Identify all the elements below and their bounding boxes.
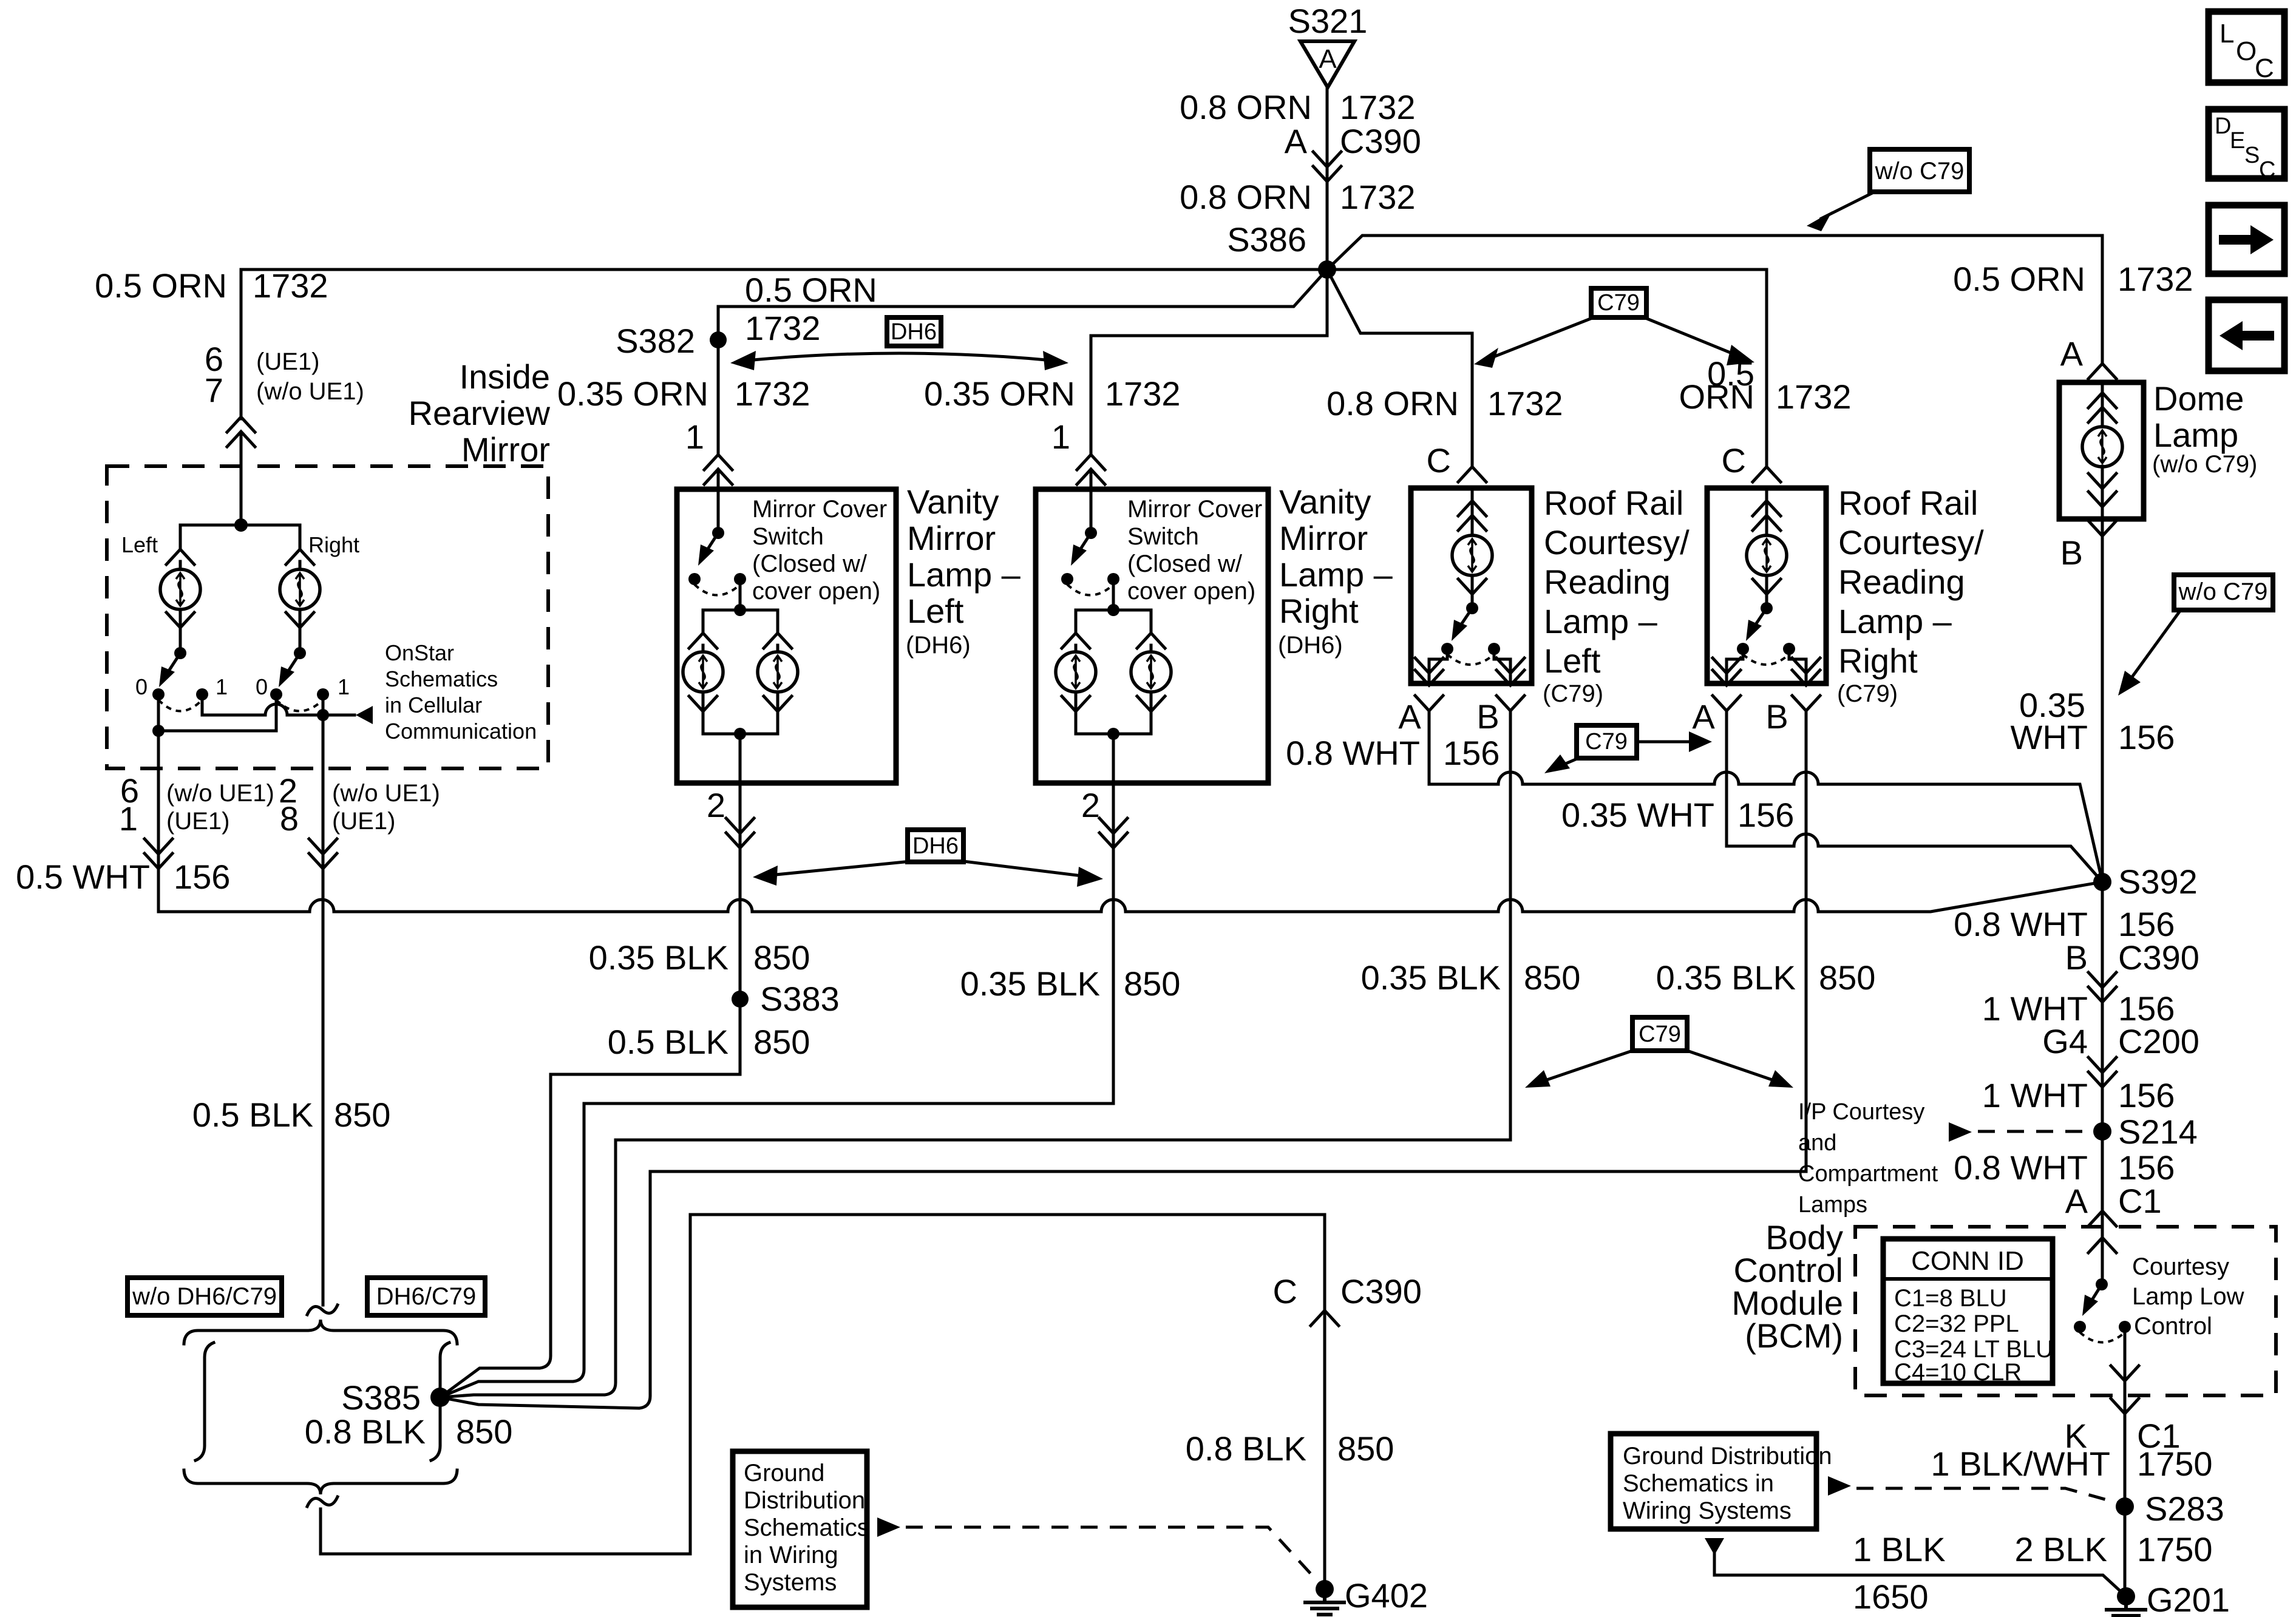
svg-text:8: 8 bbox=[280, 799, 299, 838]
connector C390 pin A bbox=[1313, 152, 1341, 181]
svg-text:Mirror: Mirror bbox=[1279, 519, 1368, 557]
svg-text:A: A bbox=[1398, 697, 1421, 736]
svg-text:Mirror Cover: Mirror Cover bbox=[752, 496, 887, 523]
svg-text:Schematics: Schematics bbox=[744, 1514, 869, 1541]
wire 0.35 WHT 156 roof right A to S392 bbox=[1727, 711, 2102, 882]
svg-text:A: A bbox=[1285, 122, 1308, 160]
svg-text:(w/o C79): (w/o C79) bbox=[2152, 451, 2257, 478]
svg-text:1732: 1732 bbox=[745, 309, 821, 347]
svg-text:Roof Rail: Roof Rail bbox=[1838, 484, 1978, 522]
connector DH6 label lower bbox=[753, 830, 1103, 887]
svg-text:Mirror: Mirror bbox=[907, 519, 996, 557]
svg-text:Lamp –: Lamp – bbox=[1279, 555, 1393, 594]
svg-text:DH6: DH6 bbox=[891, 319, 937, 345]
svg-text:Roof Rail: Roof Rail bbox=[1544, 484, 1683, 522]
svg-text:Switch: Switch bbox=[1127, 523, 1199, 550]
svg-text:S: S bbox=[2244, 143, 2260, 168]
lamp mirror right bbox=[280, 549, 320, 653]
option break lower bbox=[307, 1497, 338, 1507]
splice S383 bbox=[589, 938, 840, 1061]
wire 0.35 BLK 850 roof right B to S385 bbox=[440, 711, 1875, 1408]
svg-text:G4: G4 bbox=[2042, 1022, 2088, 1060]
label roof rail courtesy reading lamp left bbox=[1543, 484, 1690, 707]
junction mirror feed node bbox=[180, 518, 300, 549]
svg-text:(DH6): (DH6) bbox=[906, 632, 971, 659]
svg-text:C390: C390 bbox=[2118, 938, 2199, 977]
wire vanity left pin 2 output bbox=[707, 734, 754, 999]
svg-text:1732: 1732 bbox=[2118, 260, 2193, 298]
svg-text:(BCM): (BCM) bbox=[1745, 1317, 1843, 1355]
legend back arrow button bbox=[2209, 300, 2284, 371]
svg-text:850: 850 bbox=[753, 1023, 810, 1061]
svg-text:0.8 WHT: 0.8 WHT bbox=[1286, 734, 1420, 772]
svg-text:(UE1): (UE1) bbox=[256, 348, 319, 375]
module body control module dashed box bbox=[1855, 1227, 2276, 1395]
wire 0.35 ORN 1732 S382 to vanity left pin 1 bbox=[557, 340, 810, 533]
svg-text:C390: C390 bbox=[1340, 122, 1421, 160]
svg-text:Left: Left bbox=[121, 532, 158, 557]
svg-text:and: and bbox=[1798, 1130, 1836, 1156]
svg-text:C: C bbox=[2259, 157, 2275, 183]
flag w/o C79 right bbox=[2118, 575, 2273, 696]
legend DESC button bbox=[2209, 109, 2284, 183]
svg-text:(UE1): (UE1) bbox=[332, 808, 395, 835]
svg-text:C4=10 CLR: C4=10 CLR bbox=[1894, 1359, 2022, 1386]
svg-text:0.5 BLK: 0.5 BLK bbox=[608, 1023, 729, 1061]
svg-text:Systems: Systems bbox=[744, 1569, 837, 1596]
connector C79 label top bbox=[1474, 288, 1754, 368]
svg-text:1: 1 bbox=[338, 674, 350, 699]
svg-text:A: A bbox=[1319, 44, 1337, 74]
component roof rail lamp right box bbox=[1707, 488, 1826, 683]
svg-text:2: 2 bbox=[707, 786, 725, 824]
svg-text:1732: 1732 bbox=[1340, 88, 1416, 126]
wire mirror to OnStar bbox=[202, 694, 373, 724]
wire mirror pin 6/1 output bbox=[119, 731, 274, 912]
switch mirror left bbox=[135, 647, 228, 711]
svg-text:C200: C200 bbox=[2118, 1022, 2199, 1060]
wire 0.8 WHT 156 roof left A to S392 bbox=[1429, 711, 2102, 882]
svg-text:2: 2 bbox=[1081, 786, 1100, 824]
label roof rail courtesy reading lamp right bbox=[1837, 484, 1984, 707]
svg-text:(w/o UE1): (w/o UE1) bbox=[166, 780, 274, 807]
connector roof right pin C bbox=[1722, 441, 1781, 482]
wire mirror pin 2/8 output bbox=[192, 715, 440, 1305]
svg-text:850: 850 bbox=[334, 1096, 390, 1134]
svg-text:0: 0 bbox=[256, 674, 268, 699]
svg-text:0: 0 bbox=[135, 674, 148, 699]
svg-text:S386: S386 bbox=[1227, 220, 1306, 259]
svg-text:CONN ID: CONN ID bbox=[1911, 1246, 2024, 1276]
svg-text:L: L bbox=[2220, 19, 2234, 49]
splice S386 bbox=[1227, 220, 1336, 279]
svg-text:Ground: Ground bbox=[744, 1460, 824, 1486]
svg-text:0.5 ORN: 0.5 ORN bbox=[1953, 260, 2085, 298]
option wire w/o DH6/C79 bbox=[195, 1343, 214, 1460]
svg-text:156: 156 bbox=[2118, 1076, 2175, 1114]
component inside rearview mirror dashed box bbox=[107, 466, 548, 768]
svg-text:Schematics: Schematics bbox=[385, 666, 498, 691]
svg-text:(C79): (C79) bbox=[1837, 680, 1898, 707]
svg-text:0.8 BLK: 0.8 BLK bbox=[1186, 1429, 1306, 1468]
flag DH6/C79 bbox=[367, 1278, 485, 1315]
wire BCM K C1 output bbox=[1931, 1327, 2212, 1507]
svg-text:1: 1 bbox=[119, 799, 138, 838]
svg-text:Lamp Low: Lamp Low bbox=[2132, 1283, 2244, 1310]
svg-text:Mirror: Mirror bbox=[461, 430, 550, 469]
svg-text:Courtesy/: Courtesy/ bbox=[1544, 523, 1690, 561]
svg-text:Vanity: Vanity bbox=[907, 483, 999, 521]
svg-text:1: 1 bbox=[685, 418, 704, 456]
label I/P courtesy callout bbox=[1798, 1099, 2091, 1218]
wire 0.8 ORN 1732 S321 to C390 bbox=[1180, 87, 1421, 267]
svg-text:0.35 WHT: 0.35 WHT bbox=[1561, 796, 1714, 834]
svg-text:850: 850 bbox=[456, 1412, 512, 1451]
lamp vanity right pair bbox=[1056, 579, 1171, 740]
svg-text:C: C bbox=[2255, 53, 2274, 83]
svg-text:w/o C79: w/o C79 bbox=[1875, 158, 1965, 185]
label mirror cover switch left bbox=[752, 496, 887, 605]
svg-text:C2=32 PPL: C2=32 PPL bbox=[1894, 1310, 2019, 1337]
svg-text:850: 850 bbox=[1819, 958, 1875, 997]
option break upper bbox=[307, 1305, 338, 1315]
switch mirror cover left bbox=[688, 527, 746, 595]
svg-text:B: B bbox=[2065, 938, 2088, 977]
svg-text:Rearview: Rearview bbox=[409, 394, 551, 432]
wire 1 WHT 156 C390 to C200 bbox=[1982, 989, 2199, 1087]
table CONN ID bbox=[1883, 1239, 2053, 1386]
svg-text:C: C bbox=[1273, 1272, 1297, 1310]
svg-text:S382: S382 bbox=[616, 322, 695, 360]
svg-text:850: 850 bbox=[1124, 964, 1180, 1003]
svg-text:1: 1 bbox=[216, 674, 228, 699]
wire 0.5 WHT 156 mirror to S392 bbox=[16, 858, 2102, 912]
svg-text:156: 156 bbox=[2118, 718, 2175, 756]
svg-text:Reading: Reading bbox=[1544, 563, 1671, 601]
svg-text:G201: G201 bbox=[2147, 1581, 2230, 1617]
component roof rail lamp left box bbox=[1411, 488, 1532, 683]
connector mirror pins 6/7 bbox=[227, 417, 255, 525]
svg-text:0.35 BLK: 0.35 BLK bbox=[589, 938, 729, 977]
svg-text:C: C bbox=[1722, 441, 1746, 480]
svg-text:1750: 1750 bbox=[2137, 1445, 2213, 1483]
svg-text:S214: S214 bbox=[2118, 1113, 2198, 1151]
legend LOC button bbox=[2209, 12, 2284, 83]
svg-text:1650: 1650 bbox=[1853, 1578, 1929, 1616]
svg-text:Left: Left bbox=[907, 592, 964, 630]
svg-text:Control: Control bbox=[2134, 1313, 2212, 1340]
wire 1 BLK 1650 to G201 bbox=[1705, 1530, 2126, 1616]
svg-text:Lamp –: Lamp – bbox=[907, 555, 1021, 594]
svg-text:C390: C390 bbox=[1340, 1272, 1422, 1310]
component vanity mirror lamp left box bbox=[677, 489, 896, 783]
svg-text:0.35 BLK: 0.35 BLK bbox=[960, 964, 1100, 1003]
wire 0.35 WHT 156 dome B to S392 bbox=[2010, 519, 2175, 882]
wire 0.8 WHT 156 S214 to BCM A C1 bbox=[1954, 1131, 2175, 1284]
svg-text:156: 156 bbox=[2118, 1148, 2175, 1187]
svg-text:D: D bbox=[2215, 114, 2231, 139]
connector dome pin A bbox=[2088, 364, 2116, 379]
svg-text:C79: C79 bbox=[1585, 729, 1628, 754]
wire 0.5 ORN 1732 S386 to inside rearview mirror bbox=[95, 266, 1327, 419]
svg-text:Vanity: Vanity bbox=[1279, 483, 1371, 521]
svg-text:1732: 1732 bbox=[735, 375, 810, 413]
label ground distribution callout right bbox=[1611, 1434, 2120, 1529]
svg-text:Courtesy: Courtesy bbox=[2132, 1253, 2229, 1280]
svg-text:1732: 1732 bbox=[1487, 384, 1563, 422]
svg-text:C: C bbox=[1427, 441, 1451, 480]
option wire DH6/C79 bbox=[431, 1343, 449, 1460]
svg-text:cover open): cover open) bbox=[1127, 578, 1255, 605]
option merge brace bottom bbox=[184, 1470, 457, 1494]
svg-text:A: A bbox=[2065, 1182, 2088, 1220]
component vanity mirror lamp right box bbox=[1036, 489, 1268, 783]
svg-text:Wiring Systems: Wiring Systems bbox=[1623, 1497, 1792, 1524]
ground G402 bbox=[1305, 1576, 1428, 1615]
wire mirror switch commons joined bbox=[152, 694, 276, 737]
svg-text:S321: S321 bbox=[1288, 2, 1368, 40]
svg-text:(w/o UE1): (w/o UE1) bbox=[256, 378, 364, 405]
label dome lamp bbox=[2152, 379, 2257, 478]
svg-text:1732: 1732 bbox=[1776, 378, 1852, 416]
wire 0.8 BLK 850 option merge to G402 bbox=[321, 1215, 1422, 1589]
switch courtesy lamp low control bbox=[2074, 1253, 2244, 1343]
svg-text:O: O bbox=[2236, 36, 2257, 66]
splice S385 bbox=[305, 1378, 513, 1451]
connector C79 label lower bbox=[1525, 1017, 1793, 1088]
switch mirror cover right bbox=[1061, 527, 1119, 595]
switch roof left bbox=[1415, 602, 1524, 685]
wire 0.8 ORN 1732 S386 to roof rail lamp left bbox=[1326, 269, 1563, 467]
svg-text:in Wiring: in Wiring bbox=[744, 1542, 838, 1568]
svg-text:Lamp –: Lamp – bbox=[1838, 602, 1952, 640]
svg-text:Courtesy/: Courtesy/ bbox=[1838, 523, 1984, 561]
svg-text:in Cellular: in Cellular bbox=[385, 693, 482, 717]
svg-text:(Closed w/: (Closed w/ bbox=[1127, 551, 1243, 577]
connector roof left pins A B bbox=[1286, 696, 1524, 772]
switch mirror right bbox=[256, 647, 350, 711]
svg-text:0.35 ORN: 0.35 ORN bbox=[924, 375, 1075, 413]
svg-text:WHT: WHT bbox=[2010, 718, 2088, 756]
lamp roof left bbox=[1452, 489, 1492, 608]
svg-text:E: E bbox=[2230, 128, 2245, 154]
label body control module bbox=[1731, 1218, 1843, 1355]
lamp roof right bbox=[1747, 489, 1787, 608]
wire 1 WHT 156 C200 to S214 bbox=[1982, 1076, 2175, 1131]
flag w/o C79 top bbox=[1807, 149, 1969, 231]
svg-text:Lamp: Lamp bbox=[2153, 416, 2238, 454]
svg-text:C79: C79 bbox=[1639, 1022, 1681, 1047]
legend forward arrow button bbox=[2209, 205, 2284, 274]
svg-text:G402: G402 bbox=[1345, 1576, 1428, 1615]
svg-text:Inside: Inside bbox=[460, 358, 550, 396]
svg-text:0.5 BLK: 0.5 BLK bbox=[192, 1096, 313, 1134]
wire 0.5 BLK 850 S383 to S385 bbox=[440, 999, 740, 1397]
svg-text:Right: Right bbox=[1279, 592, 1359, 630]
svg-text:B: B bbox=[1476, 697, 1499, 736]
svg-text:S385: S385 bbox=[341, 1378, 421, 1417]
wire 0.5 ORN 1732 S386 to S382 bbox=[718, 269, 1327, 347]
connector C79 label mid bbox=[1544, 725, 1712, 773]
svg-text:Right: Right bbox=[1838, 642, 1918, 680]
wire 0.5 ORN 1732 S386 to vanity mirror right bbox=[1091, 269, 1327, 453]
lamp vanity left pair bbox=[683, 579, 798, 740]
svg-text:0.5 ORN: 0.5 ORN bbox=[745, 271, 877, 309]
svg-text:1 BLK: 1 BLK bbox=[1853, 1530, 1946, 1568]
svg-text:S383: S383 bbox=[760, 980, 840, 1018]
svg-text:850: 850 bbox=[1524, 958, 1580, 997]
wire 0.8 WHT 156 S392 to C390 B bbox=[1954, 882, 2199, 1002]
splice S214 bbox=[2093, 1113, 2198, 1151]
label inside rearview mirror bbox=[409, 358, 551, 469]
svg-text:1732: 1732 bbox=[1105, 375, 1181, 413]
switch roof right bbox=[1713, 602, 1820, 685]
svg-text:(Closed w/: (Closed w/ bbox=[752, 551, 868, 577]
svg-text:Communication: Communication bbox=[385, 719, 537, 744]
svg-text:Schematics in: Schematics in bbox=[1623, 1470, 1774, 1497]
wire vanity right pin 2 output bbox=[440, 734, 1180, 1397]
svg-text:Right: Right bbox=[308, 532, 359, 557]
svg-text:B: B bbox=[2060, 534, 2083, 572]
svg-text:0.8 WHT: 0.8 WHT bbox=[1954, 905, 2088, 943]
svg-text:Compartment: Compartment bbox=[1798, 1161, 1938, 1187]
ground G201 bbox=[2107, 1581, 2230, 1617]
svg-text:156: 156 bbox=[1737, 796, 1794, 834]
svg-text:1: 1 bbox=[1051, 418, 1070, 456]
svg-text:(DH6): (DH6) bbox=[1278, 632, 1343, 659]
svg-text:ORN: ORN bbox=[1679, 378, 1754, 416]
lamp dome bbox=[2059, 382, 2144, 519]
connector S321 triangle A bbox=[1300, 41, 1354, 87]
lamp mirror left bbox=[160, 549, 200, 653]
svg-text:Dome: Dome bbox=[2153, 379, 2244, 418]
svg-text:Switch: Switch bbox=[752, 523, 824, 550]
svg-text:156: 156 bbox=[2118, 905, 2175, 943]
svg-text:A: A bbox=[2060, 334, 2084, 373]
svg-text:(w/o UE1): (w/o UE1) bbox=[332, 780, 440, 807]
svg-text:DH6/C79: DH6/C79 bbox=[376, 1283, 477, 1310]
svg-text:0.8 WHT: 0.8 WHT bbox=[1954, 1148, 2088, 1187]
option split brace top bbox=[184, 1320, 457, 1344]
svg-text:0.8 ORN: 0.8 ORN bbox=[1180, 88, 1312, 126]
connector dome pin B bbox=[2060, 521, 2116, 572]
connector roof right pins A B bbox=[1561, 696, 1820, 834]
svg-text:Reading: Reading bbox=[1838, 563, 1965, 601]
svg-text:850: 850 bbox=[753, 938, 810, 977]
svg-text:0.35 BLK: 0.35 BLK bbox=[1361, 958, 1501, 997]
svg-text:1732: 1732 bbox=[253, 266, 328, 305]
svg-text:0.5 WHT: 0.5 WHT bbox=[16, 858, 150, 896]
wire 0.35 BLK 850 roof left B to S385 bbox=[440, 711, 1580, 1397]
svg-text:Left: Left bbox=[1544, 642, 1601, 680]
svg-text:1732: 1732 bbox=[1340, 178, 1416, 216]
svg-text:DH6: DH6 bbox=[912, 833, 959, 859]
svg-text:850: 850 bbox=[1337, 1429, 1394, 1468]
label OnStar callout bbox=[385, 640, 537, 744]
svg-text:S283: S283 bbox=[2145, 1490, 2224, 1528]
svg-text:Lamps: Lamps bbox=[1798, 1192, 1867, 1218]
svg-text:(UE1): (UE1) bbox=[166, 808, 229, 835]
svg-text:S392: S392 bbox=[2118, 863, 2198, 901]
svg-text:Lamp –: Lamp – bbox=[1544, 602, 1658, 640]
svg-text:cover open): cover open) bbox=[752, 578, 880, 605]
wire 2 BLK 1750 S283 to G201 bbox=[2014, 1507, 2212, 1596]
svg-text:I/P Courtesy: I/P Courtesy bbox=[1798, 1099, 1924, 1125]
svg-text:156: 156 bbox=[174, 858, 230, 896]
svg-text:(C79): (C79) bbox=[1543, 680, 1603, 707]
svg-text:A: A bbox=[1692, 697, 1715, 736]
svg-text:w/o DH6/C79: w/o DH6/C79 bbox=[132, 1283, 277, 1310]
svg-text:0.8 ORN: 0.8 ORN bbox=[1180, 178, 1312, 216]
svg-text:C1: C1 bbox=[2118, 1182, 2162, 1220]
flag w/o DH6/C79 bbox=[127, 1278, 282, 1315]
svg-text:Ground Distribution: Ground Distribution bbox=[1623, 1443, 1832, 1470]
svg-text:C1=8 BLU: C1=8 BLU bbox=[1894, 1285, 2007, 1312]
svg-text:156: 156 bbox=[1443, 734, 1500, 772]
wire 0.35 ORN 1732 vanity right pin 1 bbox=[924, 375, 1181, 533]
svg-text:1 BLK/WHT: 1 BLK/WHT bbox=[1931, 1445, 2110, 1483]
label vanity mirror lamp left bbox=[906, 483, 1021, 659]
connector DH6 label upper bbox=[730, 317, 1068, 370]
svg-text:0.8 BLK: 0.8 BLK bbox=[305, 1412, 426, 1451]
splice S392 bbox=[2093, 863, 2198, 901]
svg-text:2 BLK: 2 BLK bbox=[2014, 1530, 2107, 1568]
svg-text:C79: C79 bbox=[1597, 290, 1640, 316]
svg-text:Distribution: Distribution bbox=[744, 1487, 865, 1514]
wire 0.5 ORN 1732 S386 to dome lamp bbox=[1327, 236, 2193, 373]
label ground distribution callout left bbox=[733, 1451, 1319, 1607]
svg-text:7: 7 bbox=[205, 371, 223, 409]
svg-text:w/o C79: w/o C79 bbox=[2178, 578, 2268, 605]
svg-text:0.35 BLK: 0.35 BLK bbox=[1656, 958, 1796, 997]
label vanity mirror lamp right bbox=[1278, 483, 1393, 659]
svg-text:B: B bbox=[1765, 697, 1788, 736]
splice S283 bbox=[2116, 1490, 2224, 1528]
svg-text:OnStar: OnStar bbox=[385, 640, 454, 665]
label mirror cover switch right bbox=[1127, 496, 1262, 605]
svg-text:0.5 ORN: 0.5 ORN bbox=[95, 266, 227, 305]
wire 0.5 ORN 1732 S386 to roof rail lamp right bbox=[1327, 269, 1852, 467]
svg-text:1 WHT: 1 WHT bbox=[1982, 1076, 2088, 1114]
svg-text:0.35 ORN: 0.35 ORN bbox=[557, 375, 708, 413]
svg-text:0.8 ORN: 0.8 ORN bbox=[1326, 384, 1459, 422]
splice S382 bbox=[616, 322, 727, 360]
svg-text:1750: 1750 bbox=[2137, 1530, 2213, 1568]
svg-text:Mirror Cover: Mirror Cover bbox=[1127, 496, 1262, 523]
connector roof left pin C bbox=[1427, 441, 1486, 482]
